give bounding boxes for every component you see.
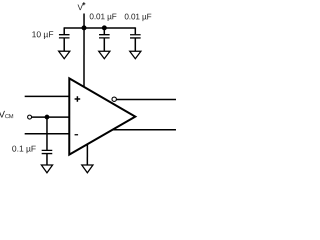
wire from op-amp bottom edge to right xyxy=(112,129,175,131)
svg-text:CM: CM xyxy=(5,114,14,120)
node junction dot on VCM line xyxy=(45,115,50,120)
wire VCM junction down to 0.1uF cap xyxy=(46,117,48,150)
node V+ label xyxy=(78,2,86,12)
wire 0.1uF cap to ground xyxy=(46,154,48,165)
ground below 0.1uF xyxy=(41,165,52,173)
svg-text:10 µF: 10 µF xyxy=(32,29,54,39)
capacitor 0.01uF first xyxy=(99,35,110,38)
wire first 0.01uF cap to ground xyxy=(103,38,105,51)
svg-text:0.01 µF: 0.01 µF xyxy=(124,12,151,21)
node VCM label xyxy=(0,110,14,121)
ground below first 0.01uF xyxy=(99,51,110,59)
wire stub rail to second 0.01uF cap xyxy=(134,27,136,34)
op-amp plus input marking xyxy=(75,96,81,102)
capacitor 10uF xyxy=(59,35,70,38)
node junction dot at V+ rail xyxy=(82,25,87,30)
capacitor 0.01uF second xyxy=(130,35,141,38)
wire supply rail horizontal xyxy=(64,27,135,29)
capacitor 0.1uF xyxy=(42,150,53,153)
wire stub rail to first 0.01uF cap xyxy=(103,27,105,34)
ground below op-amp xyxy=(82,165,93,173)
op-amp minus input marking xyxy=(75,134,79,136)
terminal VCM input circle xyxy=(28,115,32,119)
ground below 10uF xyxy=(59,51,70,59)
svg-text:V: V xyxy=(78,3,84,12)
svg-text:0.01 µF: 0.01 µF xyxy=(89,12,116,21)
wire VCM to op-amp xyxy=(32,116,69,118)
wire noninverting input xyxy=(25,95,69,97)
svg-text:0.1 µF: 0.1 µF xyxy=(12,144,36,154)
wire 10uF cap to ground xyxy=(63,38,65,51)
wire inverting input xyxy=(25,133,69,135)
wire op-amp negative supply to ground xyxy=(86,144,88,165)
wire stub rail to 10uF cap xyxy=(63,27,65,34)
terminal output circle on op-amp top edge xyxy=(112,97,116,101)
ground below second 0.01uF xyxy=(130,51,141,59)
wire second 0.01uF cap to ground xyxy=(134,38,136,51)
node junction dot at first 0.01uF cap xyxy=(102,25,107,30)
op-amp triangle xyxy=(69,78,135,154)
wire from output circle to right xyxy=(117,99,176,101)
wire V+ supply vertical xyxy=(83,13,85,87)
